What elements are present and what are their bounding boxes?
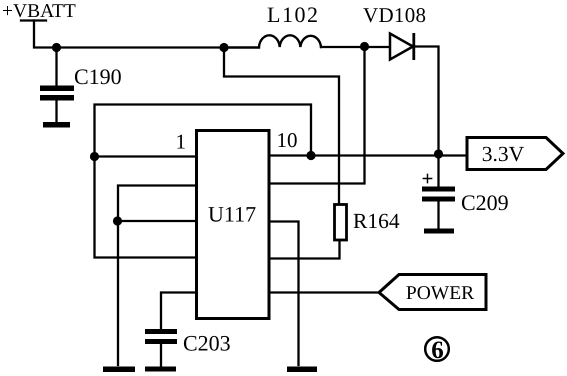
svg-text:U117: U117 [208, 202, 256, 227]
svg-text:R164: R164 [353, 209, 400, 233]
svg-text:C190: C190 [74, 64, 122, 89]
svg-text:L102: L102 [267, 2, 319, 27]
svg-text:+: + [422, 167, 434, 191]
svg-text:10: 10 [277, 128, 298, 152]
svg-text:1: 1 [176, 130, 187, 154]
svg-text:VD108: VD108 [363, 3, 426, 27]
svg-text:+VBATT: +VBATT [2, 1, 76, 22]
svg-text:C203: C203 [183, 331, 231, 356]
svg-text:C209: C209 [461, 190, 509, 215]
svg-text:6: 6 [431, 337, 444, 364]
svg-text:POWER: POWER [406, 283, 474, 304]
svg-text:3.3V: 3.3V [482, 142, 525, 166]
